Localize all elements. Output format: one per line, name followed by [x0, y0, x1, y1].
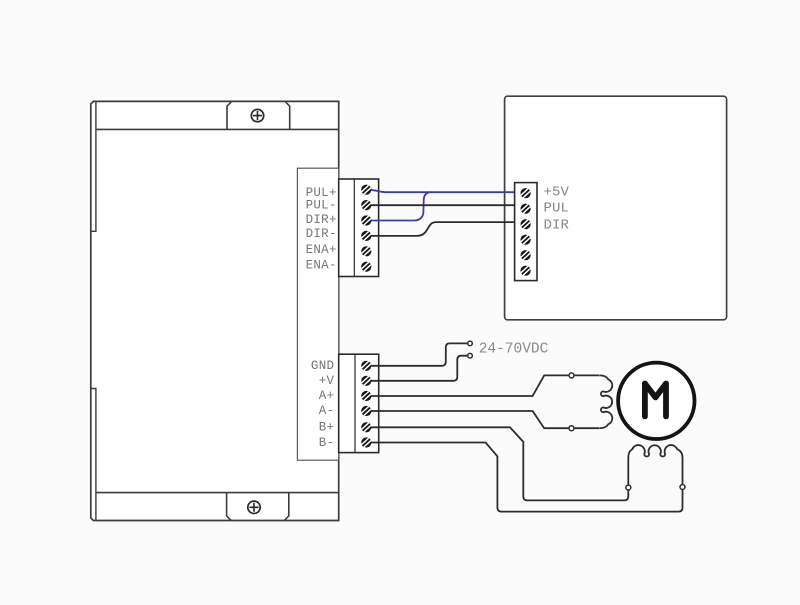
- svg-text:PUL-: PUL-: [306, 199, 337, 213]
- wire A+ to phase A top: [371, 375, 600, 396]
- controller terminal block: [515, 183, 537, 281]
- screw A+: [361, 391, 371, 401]
- controller screw 5: [521, 250, 531, 260]
- controller box: [505, 96, 727, 320]
- wire +V to supply plus: [371, 356, 468, 381]
- driver DIN flange lower inner line: [91, 389, 96, 521]
- screw PUL-: [361, 200, 371, 210]
- phase A winding coil: [600, 375, 613, 428]
- wire DIR- to DIR (black): [369, 222, 515, 236]
- top mounting screw: [251, 109, 263, 121]
- screw +V: [361, 376, 371, 386]
- svg-text:A+: A+: [319, 389, 335, 403]
- motor letter M: [645, 384, 666, 417]
- controller screw PUL: [521, 204, 531, 214]
- svg-text:DIR: DIR: [544, 217, 570, 233]
- phase A lead terminal top: [569, 373, 574, 378]
- wire GND to supply minus: [371, 343, 468, 365]
- svg-text:ENA-: ENA-: [306, 258, 337, 272]
- svg-text:+V: +V: [319, 374, 335, 388]
- svg-text:A-: A-: [319, 404, 335, 418]
- wire A- from phase A bottom: [371, 411, 600, 428]
- svg-text:+5V: +5V: [544, 185, 570, 201]
- driver top bar line: [96, 128, 339, 130]
- wire B+ to phase B left: [371, 427, 628, 500]
- bottom mounting tab: [227, 493, 289, 521]
- wire B- from phase B right: [371, 443, 683, 512]
- driver case outline: [91, 101, 339, 520]
- phase A lead terminal bottom: [569, 426, 574, 431]
- phase B lead terminal left: [626, 485, 631, 490]
- screw B+: [361, 422, 371, 432]
- motor circle M1: [618, 363, 694, 439]
- screw GND: [361, 361, 371, 371]
- svg-text:DIR-: DIR-: [306, 227, 337, 241]
- controller screw 4: [521, 235, 531, 245]
- top mounting tab: [227, 102, 290, 130]
- svg-text:DIR+: DIR+: [306, 213, 337, 227]
- screw ENA+: [361, 246, 371, 256]
- wire DIR+ rising to +5V line (blue): [369, 192, 431, 220]
- svg-text:ENA+: ENA+: [306, 243, 337, 257]
- phase B lead terminal right: [680, 485, 685, 490]
- wire PUL+ to +5V (blue): [369, 190, 515, 192]
- lower terminal block: [339, 354, 379, 452]
- supply minus terminal: [468, 341, 473, 346]
- screw A-: [361, 406, 371, 416]
- screw B-: [361, 437, 371, 447]
- upper terminal block divider: [353, 179, 355, 277]
- svg-text:24-70VDC: 24-70VDC: [479, 341, 549, 357]
- upper terminal block: [339, 179, 379, 277]
- controller screw DIR: [521, 219, 531, 229]
- driver label panel: [297, 168, 338, 460]
- controller screw 6: [521, 266, 531, 276]
- screw DIR+: [361, 215, 371, 225]
- controller screw +5V: [521, 188, 531, 198]
- supply plus terminal: [468, 353, 473, 358]
- phase B winding coil: [628, 445, 682, 487]
- bottom mounting screw: [248, 501, 260, 513]
- screw ENA-: [361, 262, 371, 272]
- wire PUL- to PUL (black): [369, 204, 515, 206]
- svg-text:B+: B+: [319, 421, 335, 435]
- screw DIR-: [361, 231, 371, 241]
- screw PUL+: [361, 185, 371, 195]
- driver DIN flange upper inner line: [91, 101, 96, 231]
- lower terminal block divider: [354, 354, 356, 452]
- svg-text:PUL: PUL: [544, 201, 570, 217]
- driver bottom bar line: [96, 492, 339, 494]
- svg-text:B-: B-: [319, 436, 335, 450]
- svg-text:GND: GND: [311, 359, 334, 373]
